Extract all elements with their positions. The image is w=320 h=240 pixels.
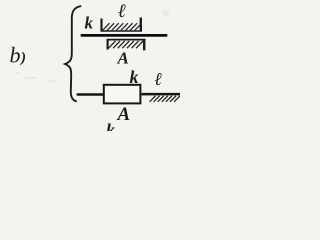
upper block hatching [103,23,142,30]
svg-text:ℓ: ℓ [155,69,163,89]
svg-text:ℓ: ℓ [118,1,126,22]
rod (top figure) [81,34,168,37]
curly brace [65,6,81,101]
ground hatching [150,96,181,102]
upper clamp block [101,18,143,32]
rod left segment [77,93,105,96]
svg-text:k: k [85,14,94,33]
paper background [0,0,180,131]
block rectangle [104,85,141,104]
svg-text:A: A [117,104,131,125]
lower clamp block [107,39,146,50]
svg-text:b: b [10,43,21,68]
lower block hatching [109,41,144,48]
svg-text:k: k [106,120,115,131]
svg-text:k: k [130,67,139,87]
rod right segment / ground line [142,93,181,96]
svg-text:A: A [117,49,129,68]
svg-text:): ) [19,50,26,66]
